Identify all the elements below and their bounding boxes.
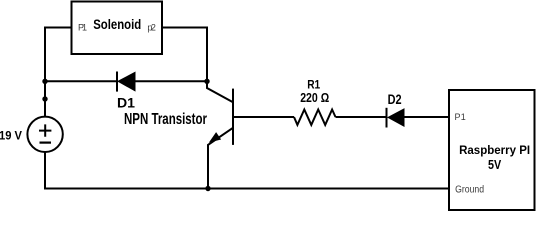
svg-text:Solenoid: Solenoid: [93, 16, 141, 32]
svg-text:Ground: Ground: [455, 185, 484, 196]
svg-text:5V: 5V: [488, 158, 502, 172]
diode D1 cathode bar: [116, 72, 118, 92]
voltage source minus sign: [40, 142, 52, 144]
wire: base to resistor R1: [233, 116, 294, 118]
resistor R1 zigzag: [294, 110, 336, 125]
wire: solenoid pin p2 down to node B: [162, 28, 207, 82]
svg-text:220 Ω: 220 Ω: [300, 90, 329, 105]
junction dot on left rail above source: [42, 96, 47, 101]
wire: D2 anode to Raspberry PI pin P1: [404, 116, 449, 118]
solenoid U1 box: [72, 2, 163, 55]
wire: solenoid pin P1 to node A (left vertical): [45, 28, 72, 117]
diode D1 triangle (anode, pointing left): [118, 72, 135, 91]
svg-text:NPN Transistor: NPN Transistor: [124, 111, 207, 128]
voltage source V1 circle: [27, 117, 62, 152]
node B junction dot: [204, 79, 209, 84]
transistor Q1 base bar: [232, 89, 234, 145]
svg-text:p2: p2: [147, 23, 156, 33]
node A junction dot: [42, 79, 47, 84]
diode D2 triangle (anode, pointing left): [388, 109, 404, 126]
transistor Q1 emitter arrow: [210, 133, 220, 142]
svg-text:19 V: 19 V: [0, 129, 22, 143]
Raspberry PI U2 box: [449, 90, 535, 210]
wire: D1 anode to node B: [135, 80, 207, 82]
svg-text:D2: D2: [388, 91, 402, 107]
wire: source minus terminal to bottom rail: [45, 152, 449, 189]
svg-text:P1: P1: [78, 22, 87, 32]
svg-text:D1: D1: [117, 95, 135, 111]
transistor Q1 emitter lead: [208, 128, 233, 189]
wire: resistor R1 to D2 cathode: [336, 116, 387, 118]
voltage source plus sign: [39, 124, 51, 136]
transistor Q1 collector lead: [207, 81, 233, 102]
emitter junction dot on bottom rail: [205, 186, 210, 191]
svg-text:Raspberry PI: Raspberry PI: [459, 143, 530, 157]
svg-text:P1: P1: [455, 112, 466, 122]
wire: node A to D1 cathode: [45, 80, 117, 82]
diode D2 cathode bar: [386, 108, 388, 128]
